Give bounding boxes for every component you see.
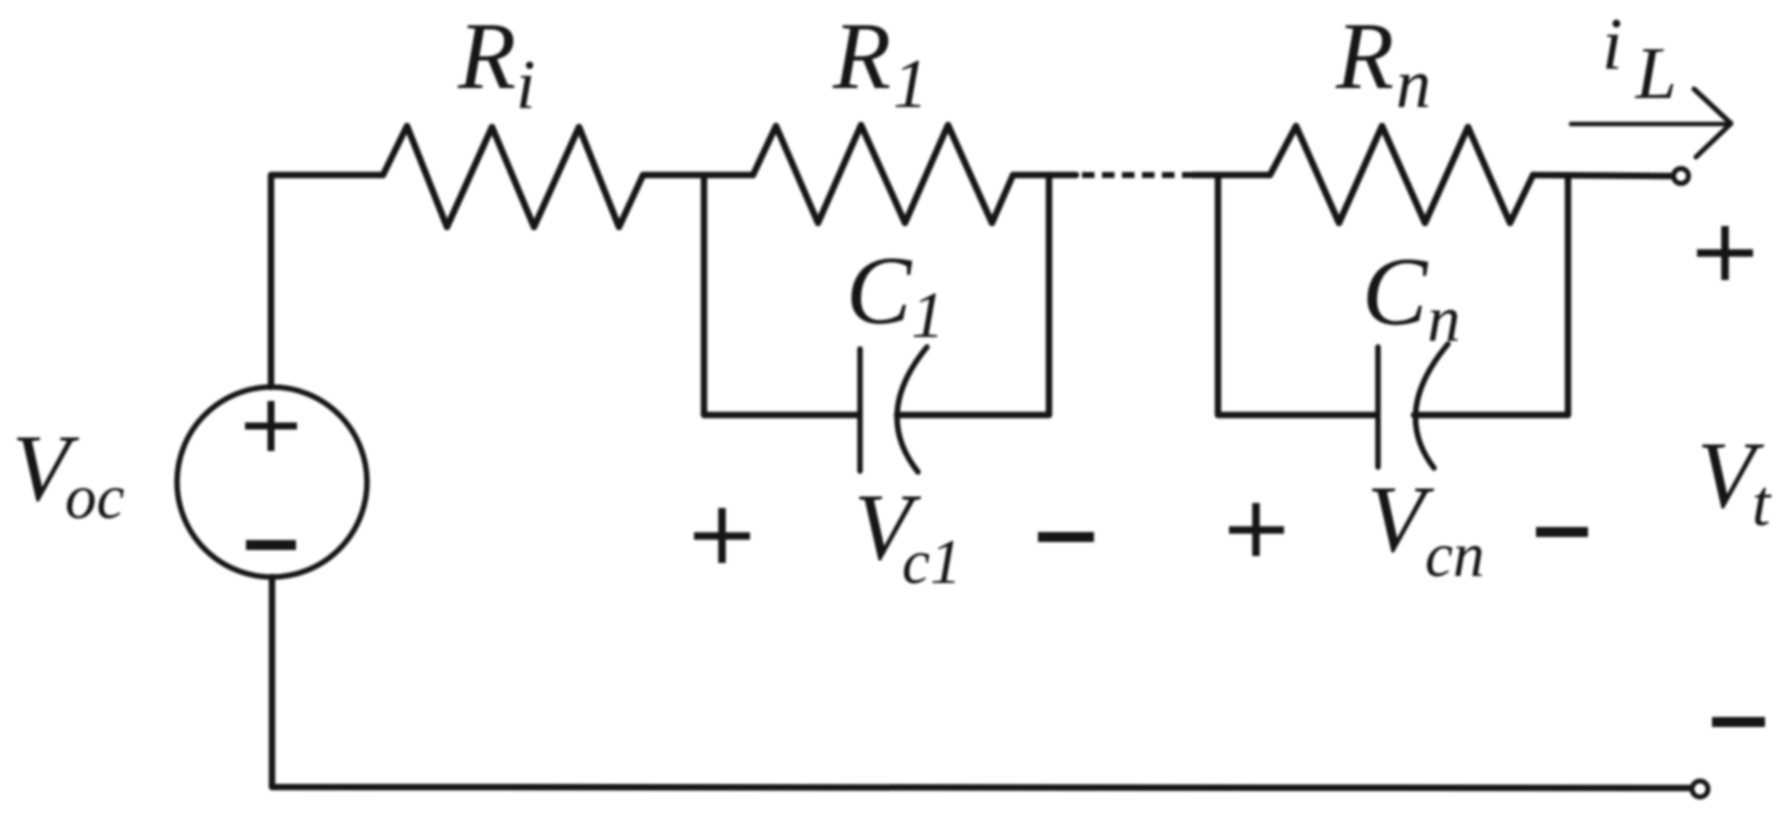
terminal bottom-right open circle: [1692, 781, 1708, 797]
minus sign inside source: [246, 540, 296, 550]
svg-text:iL: iL: [1602, 4, 1677, 115]
svg-text:C1: C1: [846, 237, 944, 352]
plus sign left of Vc1: [694, 508, 750, 563]
plus sign terminal Vt: [1697, 226, 1753, 280]
svg-text:Cn: Cn: [1362, 238, 1460, 356]
minus sign right of Vc1: [1038, 532, 1094, 542]
svg-text:Vcn: Vcn: [1367, 466, 1485, 590]
wire right branch of Cn loop: [1414, 176, 1568, 415]
plus sign inside source: [245, 401, 297, 451]
wire dashed continuation: [1082, 172, 1193, 178]
wire source bottom to ground rail: [272, 577, 1689, 788]
svg-text:R1: R1: [832, 3, 928, 123]
resistor R1: [753, 125, 1013, 223]
resistor Ri: [383, 126, 643, 227]
resistor Rn: [1270, 126, 1533, 223]
svg-text:Ri: Ri: [457, 3, 535, 124]
svg-text:Rn: Rn: [1335, 3, 1431, 123]
wire Rn to output terminal: [1533, 175, 1671, 176]
wire top-left from source to Ri: [271, 175, 383, 387]
wire left branch of Cn loop: [1218, 175, 1377, 415]
wire dashed end to Rn: [1193, 172, 1270, 179]
wire Ri to R1 node: [643, 172, 753, 179]
svg-text:Voc: Voc: [12, 415, 125, 532]
capacitor C1: [860, 347, 927, 472]
current arrow iL: [1571, 89, 1731, 157]
wire left branch of C1 loop: [704, 175, 859, 415]
svg-text:Vt: Vt: [1697, 422, 1772, 540]
terminal top-right open circle: [1674, 169, 1689, 184]
minus sign right of Vcn: [1536, 527, 1588, 537]
svg-text:Vc1: Vc1: [854, 474, 962, 597]
plus sign left of Vcn: [1229, 503, 1284, 556]
wire right branch of C1 loop: [897, 175, 1049, 415]
minus sign terminal Vt: [1712, 717, 1765, 727]
wire R1 end to dashed section: [1013, 172, 1076, 179]
capacitor Cn: [1378, 344, 1448, 468]
voltage source Voc circle: [177, 387, 367, 577]
